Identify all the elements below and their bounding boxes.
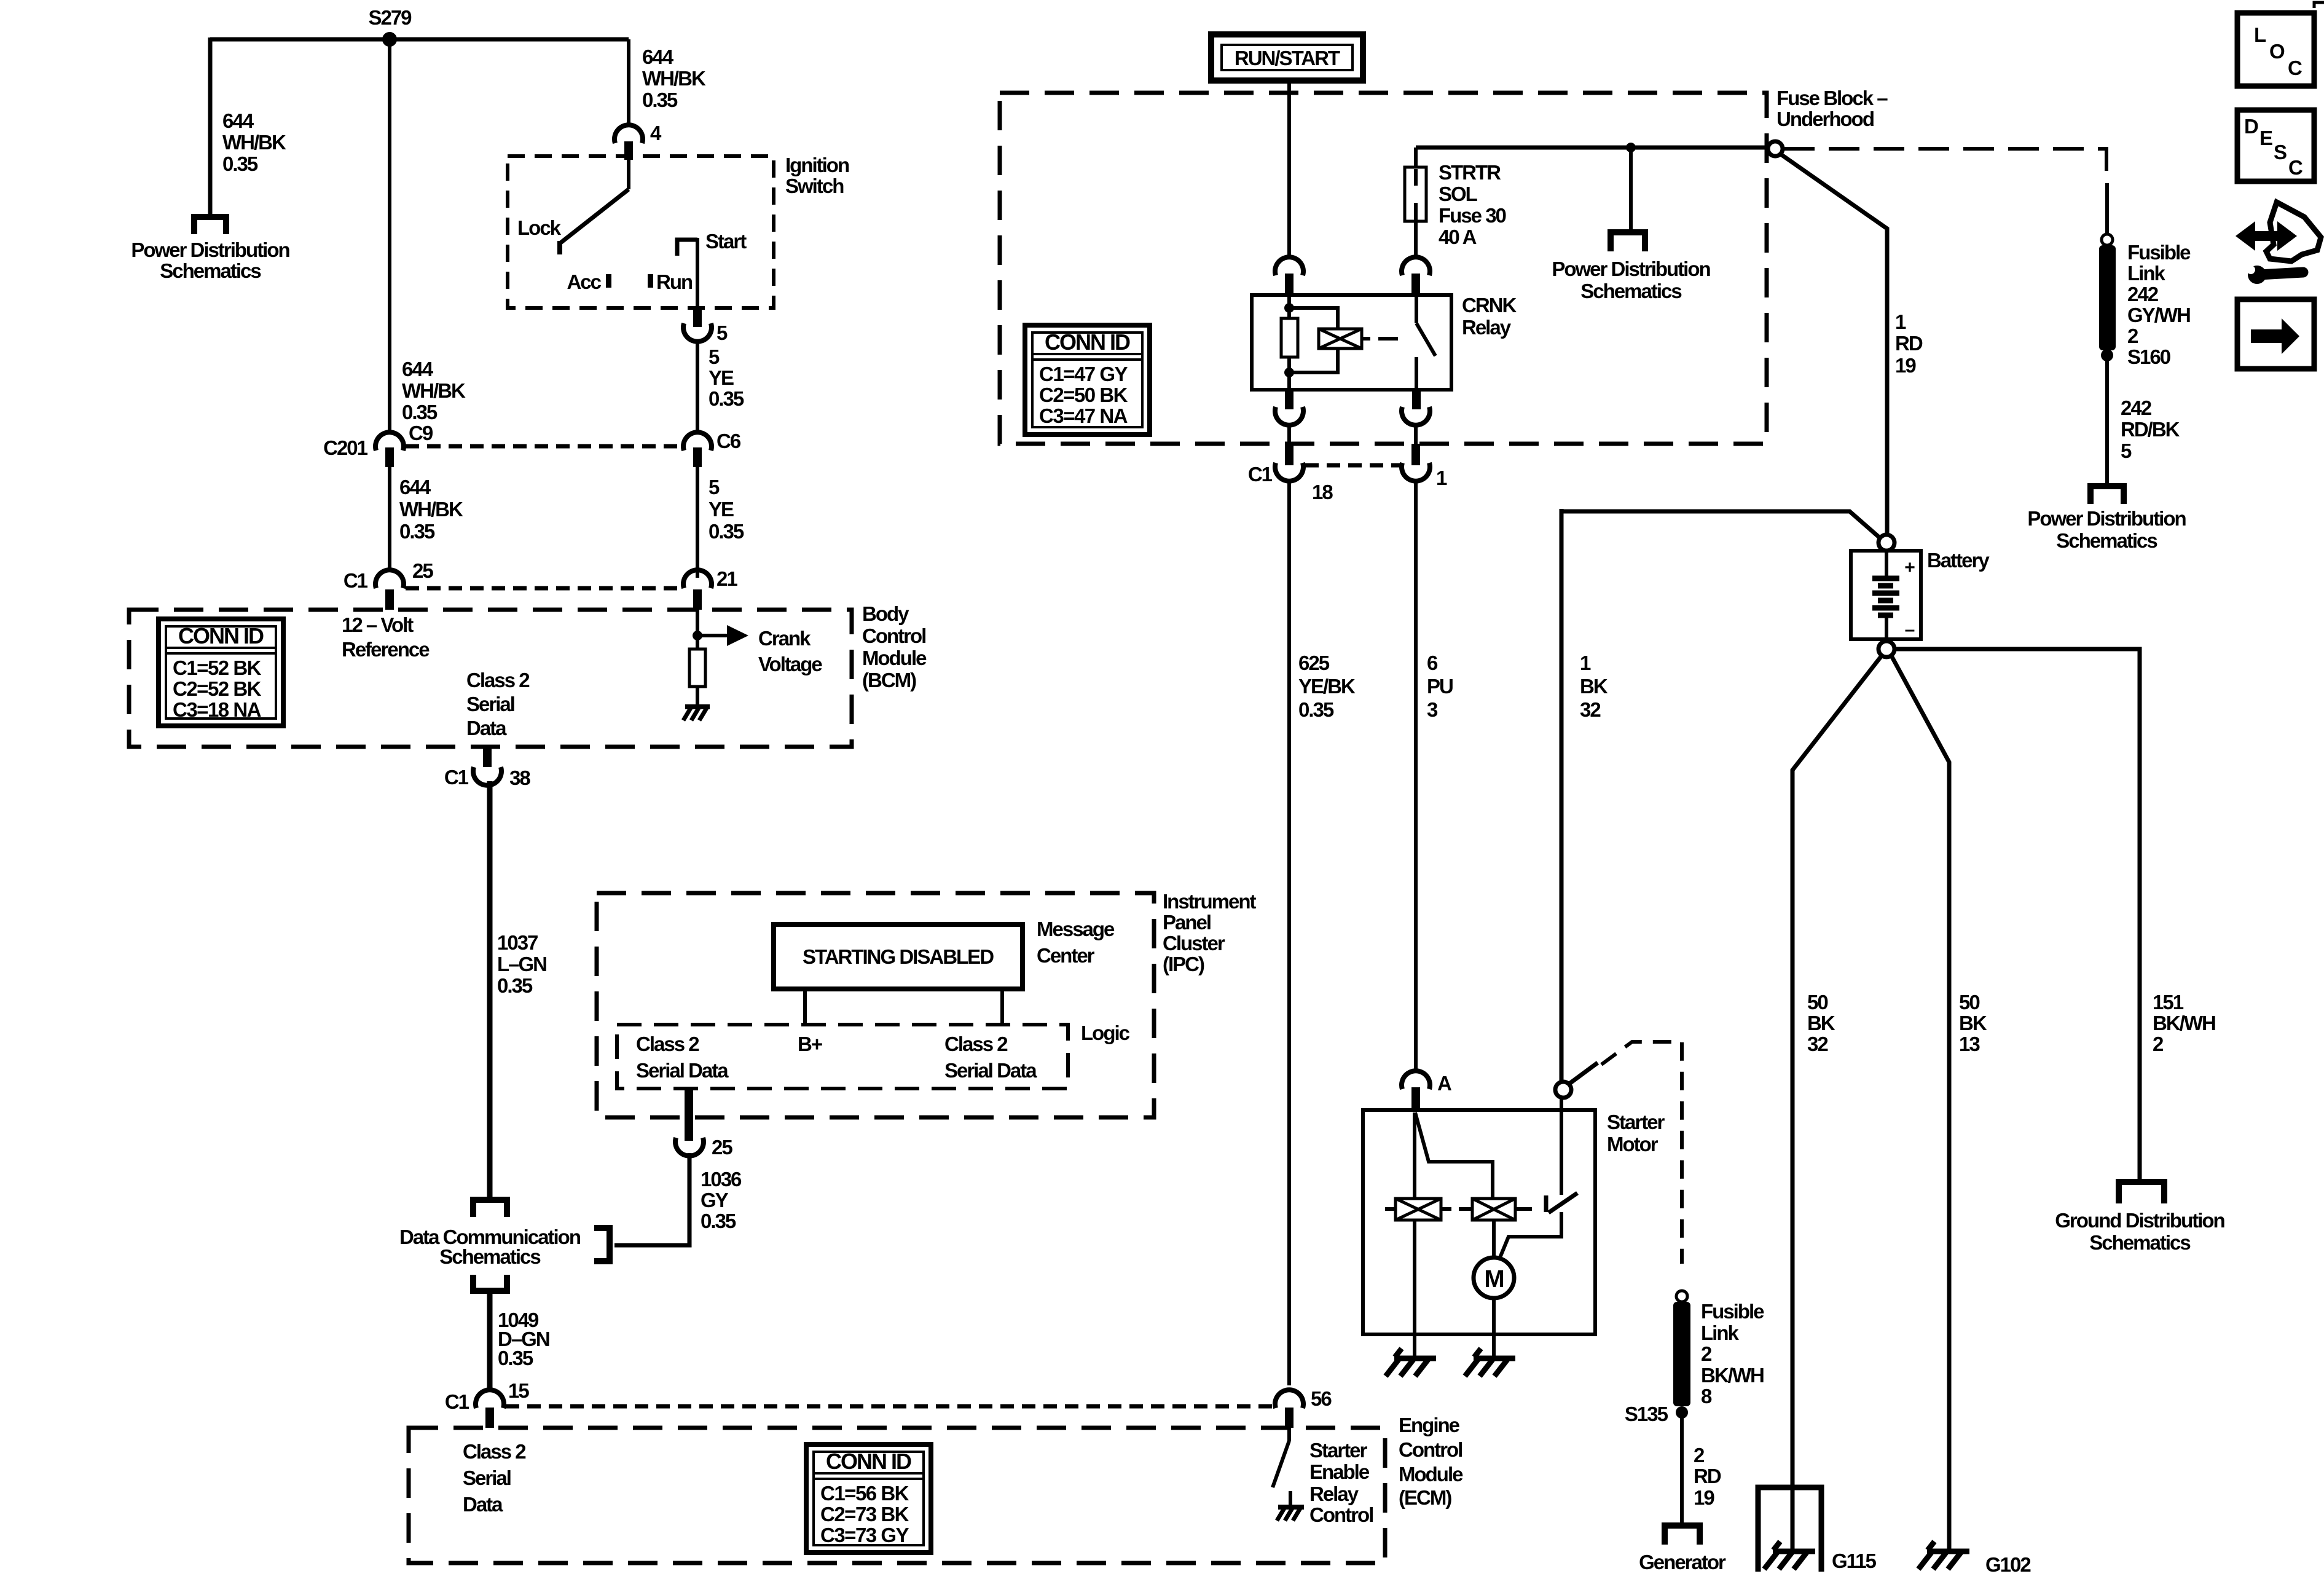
- fuse block underhood dashed box: [1000, 93, 1767, 444]
- svg-text:Class 2: Class 2: [944, 1033, 1008, 1055]
- connector 21 female half: [683, 570, 712, 588]
- wire 5 YE below C6: [696, 467, 699, 578]
- svg-text:644: 644: [399, 476, 431, 498]
- Run contact tick: [648, 274, 653, 288]
- svg-text:Enable: Enable: [1309, 1460, 1370, 1483]
- ground (ECM starter enable): [1277, 1507, 1304, 1521]
- svg-text:Generator: Generator: [1639, 1551, 1726, 1573]
- wire 1036 GY elbow to side fork: [614, 1153, 689, 1245]
- DESC icon box: [2237, 110, 2314, 181]
- STARTING DISABLED message box: [774, 924, 1023, 989]
- starter dashed boundary: [1601, 1042, 1682, 1264]
- svg-text:CONN ID: CONN ID: [178, 623, 264, 648]
- svg-text:C1=52 BK: C1=52 BK: [173, 656, 262, 679]
- svg-text:RUN/START: RUN/START: [1235, 47, 1340, 69]
- svg-text:0.35: 0.35: [709, 520, 744, 543]
- svg-text:0.35: 0.35: [642, 89, 678, 111]
- wire A to hold-in coil: [1413, 1112, 1416, 1199]
- svg-text:C: C: [2288, 156, 2302, 179]
- node S135 splice dot: [1676, 1406, 1688, 1419]
- relay coil (box with X): [1319, 329, 1362, 348]
- svg-text:Engine: Engine: [1399, 1414, 1460, 1436]
- wire B+ feed corner to starter: [1560, 509, 1879, 1082]
- svg-text:242: 242: [2127, 283, 2159, 305]
- svg-text:0.35: 0.35: [497, 974, 533, 997]
- svg-text:C9: C9: [409, 422, 433, 444]
- svg-text:50: 50: [1959, 991, 1979, 1014]
- starter coil linkage dash: [1459, 1207, 1464, 1211]
- wire RUN/START down to relay coil connector: [1287, 81, 1291, 258]
- page corner mark: [2314, 2, 2324, 8]
- svg-text:CONN ID: CONN ID: [826, 1449, 911, 1474]
- off-page fork to Power Distribution Schematics (right): [2087, 483, 2127, 504]
- starter contact tick: [1544, 1195, 1549, 1212]
- svg-text:(ECM): (ECM): [1399, 1486, 1451, 1509]
- svg-text:C: C: [2288, 57, 2302, 79]
- wire resistor to ground: [696, 687, 699, 707]
- connector 25 pin (IPC exit): [685, 1089, 693, 1141]
- svg-text:Module: Module: [862, 647, 927, 669]
- svg-text:L: L: [2254, 23, 2266, 46]
- wire S160 to fork: [2105, 355, 2109, 483]
- svg-text:–: –: [1905, 620, 1915, 640]
- svg-text:Starter: Starter: [1309, 1439, 1368, 1462]
- connector C1/38 pin: [483, 747, 492, 767]
- svg-text:WH/BK: WH/BK: [222, 131, 286, 154]
- svg-text:Data: Data: [466, 717, 507, 739]
- connector C201 C9 female half: [375, 432, 404, 451]
- svg-text:19: 19: [1895, 354, 1916, 377]
- svg-text:242: 242: [2121, 396, 2152, 419]
- side fork (joins Data Communication): [594, 1225, 613, 1264]
- starter hold-in coil: [1385, 1199, 1451, 1220]
- svg-text:YE: YE: [709, 498, 734, 521]
- svg-text:Message: Message: [1037, 918, 1115, 940]
- ECM CONN ID box: [806, 1444, 931, 1553]
- wire right branch down to connector 4: [627, 39, 630, 125]
- wire battery minus left diagonal to G115: [1792, 656, 1882, 1550]
- wire 1 RD 19 diagonal from fuse block: [1781, 154, 1887, 540]
- wire fuse to relay switch connector: [1414, 221, 1418, 258]
- wire 21 into BCM to crank node: [696, 610, 699, 636]
- connector C1/25 female half: [375, 570, 404, 588]
- node relay top dot: [1284, 303, 1294, 313]
- svg-text:C1: C1: [343, 569, 368, 592]
- svg-text:Schematics: Schematics: [439, 1245, 540, 1268]
- svg-text:BK/WH: BK/WH: [2153, 1012, 2215, 1034]
- svg-text:2: 2: [1694, 1444, 1705, 1467]
- connector C9 pin: [385, 447, 394, 467]
- svg-text:Link: Link: [1701, 1321, 1739, 1344]
- svg-text:BK: BK: [1807, 1012, 1835, 1034]
- svg-text:2: 2: [1701, 1342, 1712, 1365]
- fusible link S160 body: [2099, 245, 2116, 350]
- wire 6 PU down to starter A: [1414, 479, 1418, 1071]
- wire S135 to generator fork: [1680, 1412, 1684, 1522]
- svg-text:BK: BK: [1959, 1012, 1987, 1034]
- wire motor to ground: [1492, 1298, 1496, 1356]
- wire into fusible link: [2105, 183, 2109, 235]
- svg-text:C1: C1: [445, 1390, 469, 1413]
- wire 625 YE/BK down to ECM 56: [1287, 479, 1291, 1385]
- svg-text:PU: PU: [1427, 675, 1453, 698]
- repair info icon (arrows + wrench): [2236, 202, 2321, 284]
- ground G115 bracket: [1758, 1487, 1821, 1572]
- relay switch upper stub: [1415, 295, 1418, 323]
- starter B switch lever: [1569, 1063, 1598, 1084]
- svg-text:0.35: 0.35: [701, 1210, 736, 1232]
- svg-text:1036: 1036: [701, 1168, 742, 1191]
- ignition switch lever (pointing to Lock): [560, 189, 629, 243]
- wire Start contact down through box: [696, 238, 699, 308]
- relay output pin right: [1412, 390, 1421, 409]
- wire 6 PU relay to fuse block edge: [1414, 424, 1418, 444]
- svg-text:Ignition: Ignition: [785, 154, 849, 176]
- connector 15 pin: [485, 1408, 494, 1428]
- inline connector dashed line 15 to 56: [506, 1404, 1275, 1409]
- forward arrow icon box: [2237, 299, 2314, 369]
- svg-text:STARTING DISABLED: STARTING DISABLED: [803, 945, 994, 968]
- svg-text:Schematics: Schematics: [2056, 529, 2157, 552]
- svg-text:Serial Data: Serial Data: [636, 1059, 729, 1082]
- svg-text:S279: S279: [368, 6, 412, 29]
- fuse STRTR SOL wire from bus: [1414, 148, 1418, 167]
- svg-text:644: 644: [642, 45, 674, 68]
- svg-text:C6: C6: [716, 430, 741, 452]
- wire trunk resumes down to ECM C1/15: [487, 1293, 493, 1390]
- svg-text:644: 644: [402, 358, 434, 380]
- relay output pin left: [1285, 390, 1294, 409]
- svg-text:Start: Start: [705, 230, 747, 253]
- svg-text:C1: C1: [1248, 463, 1273, 486]
- connector coil-feed female half: [1275, 257, 1303, 275]
- svg-text:Logic: Logic: [1081, 1022, 1130, 1044]
- power bus horizontal in fuse block: [1416, 146, 1767, 150]
- svg-text:Class 2: Class 2: [636, 1033, 699, 1055]
- wire contact to motor: [1500, 1212, 1561, 1258]
- wire left branch down to Power Distribution fork: [208, 37, 213, 214]
- battery box: [1851, 551, 1921, 639]
- connector 1 cup: [1402, 463, 1430, 481]
- svg-text:G115: G115: [1832, 1549, 1877, 1572]
- inline connector dashed line C9 to C6: [406, 444, 682, 449]
- off-page fork out (below Data Communication): [470, 1275, 510, 1294]
- wire serial data trunk down to Data Communication: [487, 781, 493, 1197]
- svg-text:0.35: 0.35: [498, 1347, 533, 1369]
- ground (starter hold-in): [1386, 1349, 1436, 1376]
- svg-text:19: 19: [1694, 1486, 1714, 1509]
- connector switch-feed female half: [1402, 257, 1430, 275]
- svg-text:Motor: Motor: [1607, 1133, 1659, 1156]
- svg-text:6: 6: [1427, 652, 1438, 674]
- ground G115 symbol: [1764, 1542, 1815, 1569]
- svg-text:Center: Center: [1037, 944, 1095, 967]
- svg-text:C2=50 BK: C2=50 BK: [1039, 384, 1128, 406]
- svg-text:G102: G102: [1985, 1553, 2031, 1576]
- svg-text:4: 4: [650, 122, 662, 144]
- CRNK relay box: [1252, 295, 1451, 390]
- svg-text:40 A: 40 A: [1439, 226, 1477, 248]
- svg-text:151: 151: [2153, 991, 2184, 1014]
- connector 21 pin: [693, 589, 702, 610]
- starter motor M circle: [1474, 1258, 1514, 1298]
- connector 5 pin: [693, 308, 702, 327]
- wire S279 down to connector C201/C9: [388, 39, 391, 433]
- RUN/START box: [1211, 34, 1363, 81]
- svg-text:GY/WH: GY/WH: [2127, 304, 2190, 326]
- svg-text:5: 5: [2121, 439, 2132, 462]
- off-page fork to Power Distribution Schematics (fuse block): [1608, 229, 1648, 251]
- relay output cup left: [1275, 407, 1303, 425]
- fusible link S135 terminal circle: [1676, 1291, 1687, 1302]
- svg-text:BK/WH: BK/WH: [1701, 1364, 1764, 1387]
- svg-text:Starter: Starter: [1607, 1111, 1665, 1133]
- wire battery minus right diagonal to G102: [1891, 656, 1949, 1551]
- svg-text:Fuse 30: Fuse 30: [1439, 204, 1506, 227]
- svg-text:Relay: Relay: [1462, 316, 1512, 339]
- fusible link S135 body: [1673, 1302, 1690, 1406]
- svg-text:32: 32: [1807, 1033, 1828, 1055]
- IPC dashed box: [597, 893, 1154, 1117]
- svg-text:L–GN: L–GN: [497, 953, 546, 975]
- svg-text:1037: 1037: [497, 931, 538, 954]
- wire coil feed into relay: [1287, 295, 1291, 318]
- wire ignition pivot stub: [627, 159, 630, 189]
- inline connector dashed line 25 to 21: [406, 586, 682, 591]
- ground (starter motor): [1465, 1349, 1515, 1376]
- svg-text:(IPC): (IPC): [1163, 953, 1204, 975]
- svg-text:1: 1: [1895, 310, 1906, 333]
- fuse STRTR SOL body: [1405, 167, 1426, 221]
- wire B into starter box: [1560, 1098, 1563, 1195]
- svg-text:WH/BK: WH/BK: [642, 67, 706, 90]
- wire message box left drop: [803, 989, 807, 1025]
- LOC icon box: [2237, 13, 2314, 86]
- starter solenoid blade from A: [1415, 1112, 1493, 1199]
- starter motor solid box: [1363, 1110, 1595, 1334]
- svg-text:Schematics: Schematics: [160, 259, 261, 282]
- connector C6 female half: [683, 432, 712, 451]
- svg-text:1: 1: [1580, 652, 1591, 674]
- connector C1/38 female half: [473, 767, 501, 786]
- wire pull-in coil to motor: [1492, 1220, 1496, 1258]
- svg-text:Link: Link: [2127, 262, 2165, 285]
- svg-text:Schematics: Schematics: [1580, 280, 1681, 302]
- svg-text:15: 15: [508, 1379, 529, 1402]
- svg-text:Fusible: Fusible: [1701, 1300, 1764, 1323]
- svg-text:C3=73 GY: C3=73 GY: [820, 1524, 909, 1546]
- svg-text:YE/BK: YE/BK: [1298, 675, 1356, 698]
- svg-text:CONN ID: CONN ID: [1045, 329, 1130, 355]
- svg-text:STRTR: STRTR: [1439, 161, 1501, 184]
- svg-text:Run: Run: [656, 270, 693, 293]
- lever end tick: [557, 241, 562, 254]
- svg-text:C3=18 NA: C3=18 NA: [173, 698, 261, 721]
- svg-text:BK: BK: [1580, 675, 1608, 698]
- svg-text:Underhood: Underhood: [1776, 108, 1874, 130]
- svg-text:Voltage: Voltage: [758, 653, 822, 675]
- svg-text:A: A: [1437, 1072, 1451, 1095]
- svg-text:13: 13: [1959, 1033, 1980, 1055]
- svg-text:RD: RD: [1895, 332, 1923, 355]
- dashed link fuse block to fusible link S160: [1784, 149, 2106, 184]
- connector 1 pin: [1411, 444, 1420, 465]
- svg-text:Lock: Lock: [517, 216, 562, 239]
- relay resistor: [1281, 318, 1298, 357]
- connector 5 female half: [683, 323, 712, 342]
- svg-text:Relay: Relay: [1309, 1483, 1359, 1505]
- battery plus terminal circle: [1878, 535, 1894, 551]
- relay switch blade: [1416, 323, 1435, 356]
- battery minus terminal circle: [1878, 641, 1894, 657]
- wire bus to Power Distribution fork: [1629, 148, 1633, 229]
- svg-text:CRNK: CRNK: [1462, 294, 1517, 317]
- svg-text:Instrument: Instrument: [1163, 890, 1257, 913]
- svg-text:SOL: SOL: [1439, 183, 1478, 205]
- wire 56 into ECM: [1287, 1428, 1291, 1441]
- svg-text:S: S: [2274, 141, 2287, 163]
- off-page fork to Power Distribution Schematics (left): [191, 214, 229, 234]
- connector coil-feed pin: [1285, 274, 1294, 295]
- off-page fork in (Data Communication): [470, 1197, 510, 1217]
- off-page fork to Generator: [1662, 1522, 1703, 1545]
- connector C1/18 pin: [1285, 444, 1294, 465]
- off-page fork to Ground Distribution Schematics: [2116, 1179, 2167, 1203]
- svg-text:644: 644: [222, 109, 254, 132]
- Logic dashed box: [617, 1025, 1068, 1089]
- svg-text:Serial Data: Serial Data: [944, 1059, 1037, 1082]
- svg-text:5: 5: [709, 345, 720, 368]
- connector 4 female half: [614, 125, 643, 143]
- starter B terminal circle: [1555, 1082, 1571, 1098]
- wire battery minus to 151 BK/WH corner: [1894, 649, 2140, 1179]
- svg-text:Cluster: Cluster: [1163, 932, 1225, 955]
- Start contact bracket: [677, 240, 697, 256]
- svg-text:0.35: 0.35: [1298, 698, 1334, 721]
- starter pull-in coil: [1462, 1199, 1532, 1220]
- connector 4 pin: [624, 141, 633, 160]
- svg-text:C201: C201: [323, 436, 368, 459]
- svg-text:Data: Data: [463, 1493, 503, 1516]
- BCM CONN ID box: [159, 619, 283, 726]
- starter contact blade: [1549, 1193, 1577, 1213]
- svg-text:Serial: Serial: [466, 693, 514, 715]
- wire 625 YE/BK relay to fuse block edge: [1287, 424, 1291, 444]
- svg-text:C2=52 BK: C2=52 BK: [173, 677, 262, 700]
- relay coil parallel loop: [1289, 308, 1338, 372]
- connector 56 female half: [1275, 1390, 1303, 1408]
- svg-text:Switch: Switch: [785, 175, 844, 197]
- svg-text:Schematics: Schematics: [2089, 1231, 2190, 1254]
- svg-text:RD: RD: [1694, 1465, 1721, 1487]
- connector A pin: [1411, 1087, 1420, 1110]
- svg-text:S160: S160: [2127, 345, 2170, 368]
- svg-text:Ground Distribution: Ground Distribution: [2055, 1209, 2224, 1232]
- node S160 splice dot: [2101, 349, 2113, 361]
- svg-text:O: O: [2269, 40, 2285, 63]
- ground G102 symbol: [1918, 1542, 1969, 1569]
- svg-text:0.35: 0.35: [402, 401, 438, 423]
- svg-text:Power Distribution: Power Distribution: [1552, 258, 1710, 280]
- svg-text:Crank: Crank: [758, 627, 811, 650]
- svg-text:Serial: Serial: [463, 1467, 511, 1489]
- svg-text:3: 3: [1427, 698, 1438, 721]
- svg-text:+: +: [1904, 557, 1915, 578]
- crank voltage arrow: [697, 625, 748, 646]
- svg-text:Control: Control: [862, 624, 925, 647]
- svg-text:Power Distribution: Power Distribution: [2027, 507, 2186, 530]
- svg-text:0.35: 0.35: [222, 152, 258, 175]
- ground (BCM internal): [683, 707, 710, 720]
- node S279 junction dot: [382, 32, 397, 47]
- svg-text:25: 25: [712, 1136, 732, 1159]
- ignition switch dashed box: [508, 156, 774, 308]
- node relay bottom dot: [1284, 368, 1294, 377]
- wire node to resistor: [696, 636, 699, 649]
- svg-text:RD/BK: RD/BK: [2121, 418, 2180, 441]
- svg-text:1: 1: [1436, 467, 1447, 489]
- wire top horizontal bus from left branch to ignition branch: [210, 37, 629, 42]
- ECM dashed box: [409, 1428, 1385, 1563]
- svg-text:C1=47 GY: C1=47 GY: [1039, 363, 1128, 385]
- svg-text:21: 21: [716, 567, 737, 590]
- svg-text:2: 2: [2153, 1033, 2164, 1055]
- svg-text:56: 56: [1311, 1387, 1332, 1410]
- wire blade to ground stub: [1289, 1491, 1292, 1507]
- connector C6 pin: [693, 447, 702, 467]
- resistor (BCM pull-down): [689, 649, 705, 687]
- svg-text:Class 2: Class 2: [466, 669, 530, 691]
- svg-text:Fuse Block –: Fuse Block –: [1776, 87, 1888, 109]
- svg-text:2: 2: [2127, 325, 2138, 347]
- wire resistor to bottom node: [1287, 357, 1291, 390]
- connector C1/15 female half: [476, 1390, 504, 1408]
- svg-text:Module: Module: [1399, 1463, 1463, 1486]
- svg-text:Class 2: Class 2: [463, 1440, 526, 1463]
- svg-text:625: 625: [1298, 652, 1330, 674]
- connector A female half: [1402, 1071, 1430, 1089]
- svg-text:C2=73 BK: C2=73 BK: [820, 1503, 909, 1526]
- svg-text:Fusible: Fusible: [2127, 241, 2191, 264]
- svg-text:18: 18: [1312, 481, 1333, 503]
- svg-text:C3=47 NA: C3=47 NA: [1039, 404, 1128, 427]
- ECM relay control blade: [1273, 1441, 1289, 1487]
- BCM dashed box: [129, 610, 852, 747]
- svg-text:Control: Control: [1399, 1438, 1462, 1461]
- svg-text:WH/BK: WH/BK: [402, 379, 466, 402]
- svg-text:S135: S135: [1625, 1403, 1668, 1425]
- connector 25 pin: [385, 589, 394, 610]
- Acc contact tick: [606, 274, 611, 288]
- svg-text:5: 5: [709, 476, 720, 498]
- wire 644 below C201: [388, 467, 391, 568]
- battery internals: [1872, 551, 1899, 639]
- svg-text:12 – Volt: 12 – Volt: [342, 613, 414, 636]
- svg-text:B+: B+: [798, 1033, 822, 1055]
- relay linkage dash: [1362, 337, 1398, 341]
- connector 25 female half (IPC): [675, 1138, 704, 1156]
- svg-text:Reference: Reference: [342, 638, 430, 661]
- svg-text:YE: YE: [709, 366, 734, 389]
- node bus junction dot: [1626, 143, 1636, 152]
- svg-text:8: 8: [1701, 1385, 1712, 1408]
- wire message box right drop: [1000, 989, 1004, 1025]
- svg-text:GY: GY: [701, 1189, 729, 1211]
- svg-text:25: 25: [412, 559, 433, 582]
- node crank voltage junction dot: [693, 631, 702, 640]
- svg-text:Body: Body: [862, 602, 909, 625]
- svg-text:0.35: 0.35: [709, 387, 744, 410]
